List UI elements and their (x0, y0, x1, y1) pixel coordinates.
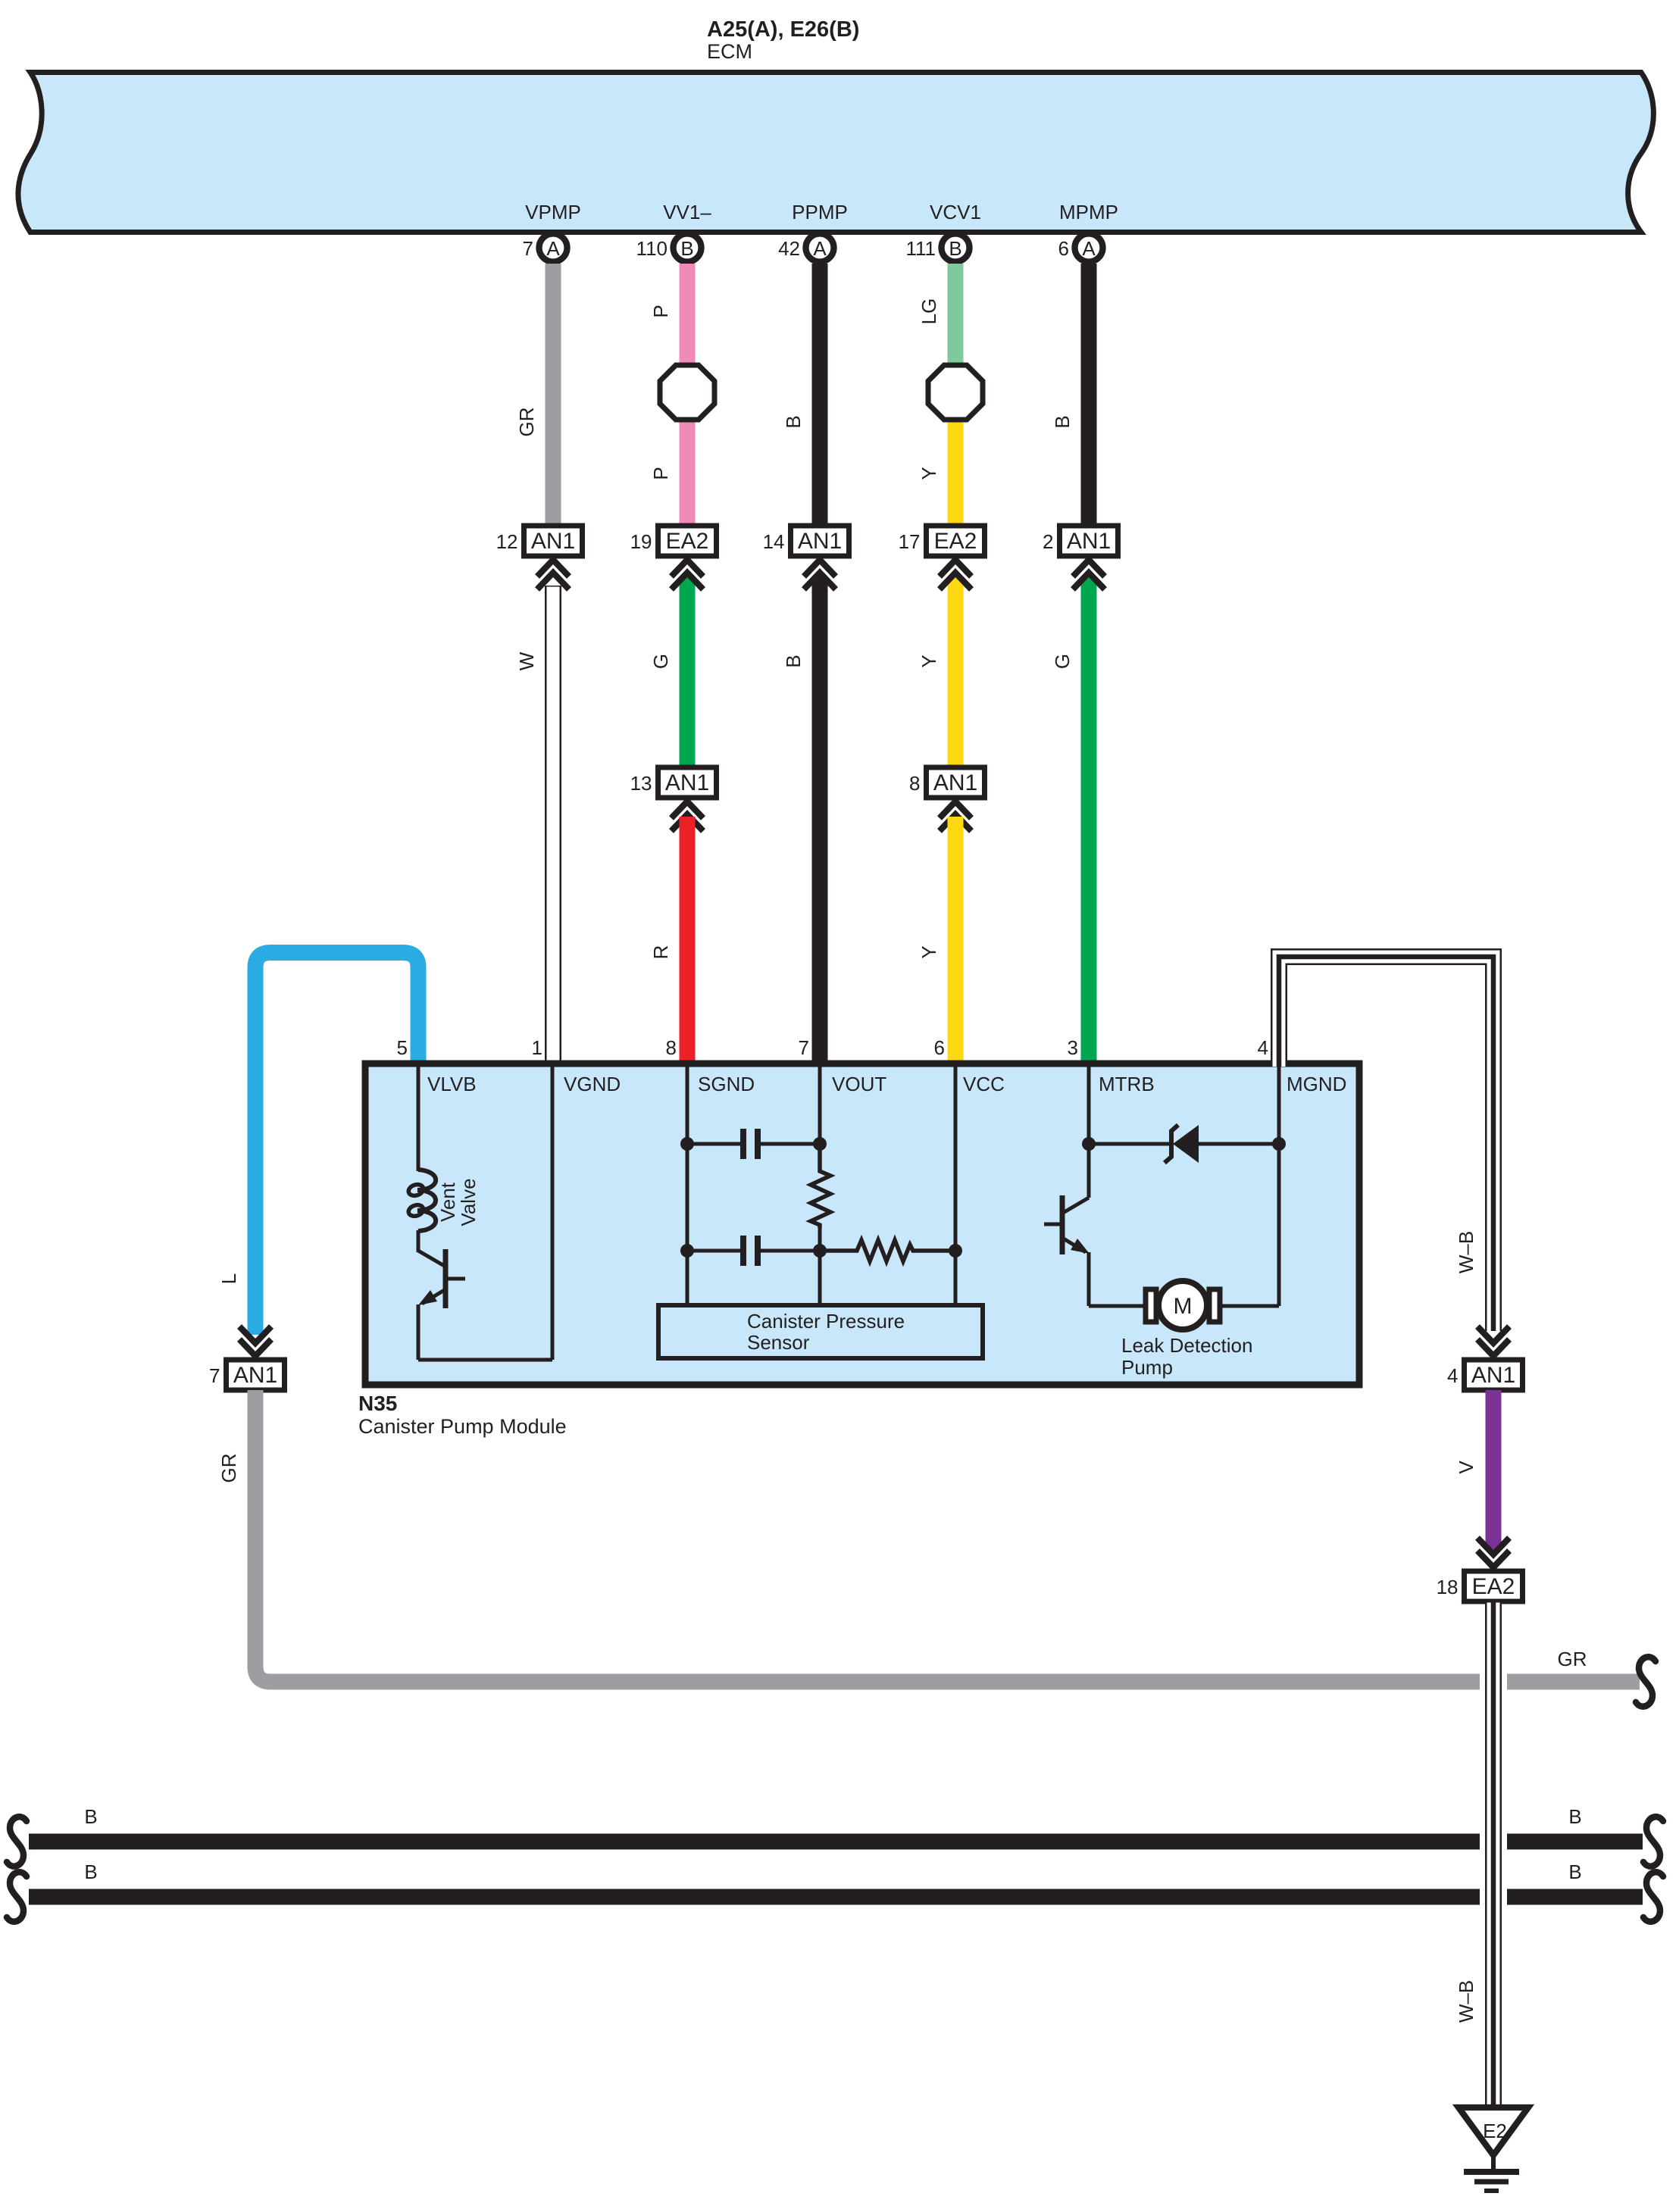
svg-text:Y: Y (918, 467, 940, 480)
connector arrows below 2 AN1 (1073, 560, 1105, 576)
svg-text:B: B (680, 237, 693, 260)
connector arrows below 19 EA2 (671, 560, 703, 576)
svg-text:18: 18 (1437, 1576, 1459, 1598)
connector arrows below 13 AN1 (671, 801, 703, 818)
canister pressure sensor box (658, 1305, 983, 1358)
connector 7 AN1 (227, 1360, 285, 1390)
ground bus bar B (lower) (29, 1889, 1643, 1905)
resistor R2 horizontal VOUT to VCC (820, 1240, 955, 1261)
svg-text:MPMP: MPMP (1059, 201, 1118, 223)
svg-text:VCV1: VCV1 (930, 201, 981, 223)
wire V from 4 AN1 to 18 EA2 (1486, 1390, 1502, 1550)
svg-text:19: 19 (630, 530, 652, 553)
svg-text:Leak Detection: Leak Detection (1121, 1334, 1252, 1357)
connector 8 AN1 (927, 767, 985, 798)
connector 18 EA2 (1465, 1571, 1523, 1601)
vent valve transistor Q (driver) (417, 1230, 421, 1252)
ECM connector pin circle 42(A) (806, 234, 834, 262)
connector 4 AN1 (1465, 1360, 1523, 1390)
wire Y from 8 AN1 to module pin 6 VCC (948, 817, 964, 1067)
ECM connector pin circle 7(A) (539, 234, 567, 262)
connector 17 EA2 (927, 526, 985, 556)
svg-text:7: 7 (209, 1364, 220, 1387)
wire GR from ECM pin 7(A) VPMP (546, 264, 561, 527)
wire G from 19 EA2 to 13 AN1 (680, 577, 696, 769)
connector 13 AN1 (658, 767, 717, 798)
svg-text:PPMP: PPMP (792, 201, 848, 223)
connector arrows above 4 AN1 (1477, 1326, 1509, 1343)
leak detection pump motor M (1089, 1304, 1146, 1308)
svg-text:GR: GR (515, 408, 538, 437)
capacitor C2 row2 (687, 1249, 743, 1253)
svg-text:5: 5 (397, 1036, 408, 1059)
ground symbol E2 (1459, 2107, 1528, 2155)
ECM block A25(A), E26(B) (18, 73, 1653, 233)
svg-text:Sensor: Sensor (747, 1331, 810, 1354)
wire Y lower to 17 EA2 (948, 406, 964, 527)
ground bus bar B (upper) (29, 1834, 1643, 1850)
svg-text:AN1: AN1 (233, 1363, 277, 1388)
wire Y from 17 EA2 to 8 AN1 (948, 577, 964, 769)
svg-text:111: 111 (905, 237, 936, 260)
svg-text:ECM: ECM (707, 40, 752, 63)
svg-text:1: 1 (532, 1036, 542, 1059)
svg-text:EA2: EA2 (666, 529, 709, 554)
connector 19 EA2 (658, 526, 717, 556)
connector 12 AN1 (524, 526, 583, 556)
svg-text:A25(A), E26(B): A25(A), E26(B) (707, 17, 859, 42)
capacitor C1 row1 (687, 1142, 743, 1146)
svg-text:MGND: MGND (1287, 1073, 1346, 1095)
svg-text:Canister Pump Module: Canister Pump Module (358, 1415, 567, 1438)
svg-text:Y: Y (918, 655, 940, 667)
svg-text:LG: LG (918, 298, 940, 325)
svg-text:7: 7 (799, 1036, 809, 1059)
svg-text:6: 6 (934, 1036, 945, 1059)
connector 2 AN1 (1060, 526, 1118, 556)
svg-text:8: 8 (666, 1036, 677, 1059)
vent valve circuit: wire from pin 5 (417, 1064, 421, 1171)
svg-text:GR: GR (217, 1454, 240, 1483)
svg-text:AN1: AN1 (665, 770, 709, 795)
svg-text:AN1: AN1 (798, 529, 842, 554)
junction dots row2 (680, 1244, 694, 1258)
break squiggle end of GR wire (1636, 1657, 1656, 1706)
svg-text:110: 110 (636, 237, 668, 260)
VOUT internal line from pin 7 (818, 1064, 822, 1144)
resistor R1 vertical on VOUT (811, 1144, 830, 1228)
wire P lower to 19 EA2 (680, 406, 696, 527)
ECM connector pin circle 111(B) (942, 234, 970, 262)
wire B from ECM pin 6(A) MPMP (1081, 264, 1097, 527)
svg-text:N35: N35 (358, 1392, 397, 1415)
svg-text:VGND: VGND (564, 1073, 621, 1095)
svg-text:EA2: EA2 (934, 529, 977, 554)
svg-text:VV1–: VV1– (663, 201, 711, 223)
svg-text:B: B (949, 237, 961, 260)
wire B from ECM pin 42(A) PPMP (812, 264, 828, 527)
svg-text:Pump: Pump (1121, 1356, 1173, 1379)
connector arrows above 18 EA2 (1477, 1538, 1509, 1554)
noise filter octagon on VCV1 wire (928, 365, 983, 420)
svg-text:VLVB: VLVB (427, 1073, 477, 1095)
svg-text:AN1: AN1 (1471, 1363, 1515, 1388)
svg-text:AN1: AN1 (1067, 529, 1111, 554)
wire W-B from 18 EA2 to ground E2 (1480, 1606, 1507, 2104)
svg-text:W–B: W–B (1455, 1980, 1477, 2023)
svg-text:W–B: W–B (1455, 1231, 1477, 1273)
connector arrows below 14 AN1 (804, 560, 836, 576)
svg-text:B: B (84, 1805, 97, 1828)
svg-text:B: B (782, 415, 805, 428)
svg-text:A: A (813, 237, 827, 260)
svg-text:A: A (546, 237, 560, 260)
junction dots row1 (680, 1137, 694, 1151)
ECM connector pin circle 110(B) (674, 234, 702, 262)
svg-text:G: G (649, 654, 672, 669)
svg-text:AN1: AN1 (933, 770, 977, 795)
svg-text:12: 12 (496, 530, 518, 553)
svg-text:B: B (1568, 1805, 1581, 1828)
svg-text:AN1: AN1 (531, 529, 575, 554)
svg-text:B: B (782, 655, 805, 667)
svg-text:GR: GR (1558, 1648, 1587, 1670)
wire LG upper from ECM pin 111(B) VCV1 (948, 264, 964, 379)
svg-text:G: G (1051, 654, 1074, 669)
svg-text:8: 8 (909, 772, 920, 795)
svg-text:Y: Y (918, 945, 940, 958)
wire R from 13 AN1 to module pin 8 SGND (680, 817, 696, 1067)
wire B from 14 AN1 to module pin 7 VOUT (812, 577, 828, 1067)
connector arrows below 12 AN1 (537, 560, 569, 576)
svg-text:B: B (84, 1861, 97, 1883)
vent valve loop bottom and return to pin 1 VGND (418, 1358, 552, 1362)
svg-text:13: 13 (630, 772, 652, 795)
wire G from 2 AN1 to module pin 3 MTRB (1081, 577, 1097, 1067)
canister pump module N35 box (365, 1064, 1359, 1385)
ECM connector pin circle 6(A) (1075, 234, 1103, 262)
svg-text:P: P (649, 467, 672, 480)
svg-text:3: 3 (1068, 1036, 1078, 1059)
svg-text:VCC: VCC (963, 1073, 1005, 1095)
connector arrows above 7 AN1 (239, 1326, 271, 1343)
svg-text:A: A (1082, 237, 1096, 260)
svg-text:R: R (649, 945, 672, 960)
MGND internal line from pin 4 (1277, 1064, 1281, 1306)
svg-text:M: M (1174, 1294, 1193, 1319)
svg-text:17: 17 (899, 530, 921, 553)
svg-text:V: V (1455, 1461, 1477, 1474)
zener diode across motor (1089, 1142, 1171, 1146)
svg-text:VPMP: VPMP (525, 201, 581, 223)
wire GR from 7 AN1 down and right (255, 1390, 1640, 1682)
connector 14 AN1 (791, 526, 849, 556)
svg-text:Canister Pressure: Canister Pressure (747, 1310, 905, 1333)
svg-text:VOUT: VOUT (832, 1073, 886, 1095)
svg-text:2: 2 (1043, 530, 1053, 553)
svg-text:42: 42 (778, 237, 800, 260)
wire W-B from module pin 4 MGND to 4 AN1 (1279, 957, 1493, 1331)
svg-text:SGND: SGND (698, 1073, 755, 1095)
SGND internal line from pin 8 (686, 1064, 689, 1305)
wire L from module pin 5 VLVB to 7 AN1 (255, 953, 418, 1336)
svg-text:EA2: EA2 (1472, 1574, 1515, 1599)
svg-text:Vent: Vent (436, 1182, 459, 1222)
wire W from 12 AN1 to module pin 1 VGND (545, 586, 561, 1067)
svg-text:E2: E2 (1483, 2120, 1507, 2142)
MTRB internal line from pin 3 (1087, 1064, 1091, 1198)
svg-text:MTRB: MTRB (1099, 1073, 1155, 1095)
connector arrows below 17 EA2 (940, 560, 971, 576)
vent valve coil (417, 1170, 436, 1231)
connector arrows below 8 AN1 (940, 801, 971, 818)
noise filter octagon on VV1- wire (660, 365, 714, 420)
svg-text:6: 6 (1058, 237, 1069, 260)
svg-text:P: P (649, 305, 672, 317)
pump driver transistor Q2 (1063, 1198, 1089, 1213)
svg-text:7: 7 (523, 237, 533, 260)
svg-text:14: 14 (763, 530, 785, 553)
wire P upper from ECM pin 110(B) VV1- (680, 264, 696, 379)
svg-text:4: 4 (1258, 1036, 1268, 1059)
svg-text:4: 4 (1447, 1364, 1458, 1387)
svg-text:Valve: Valve (457, 1178, 480, 1226)
svg-text:B: B (1568, 1861, 1581, 1883)
VCC internal line from pin 6 (954, 1064, 958, 1305)
svg-text:W: W (515, 651, 538, 670)
svg-text:B: B (1051, 415, 1074, 428)
svg-text:L: L (217, 1273, 240, 1284)
